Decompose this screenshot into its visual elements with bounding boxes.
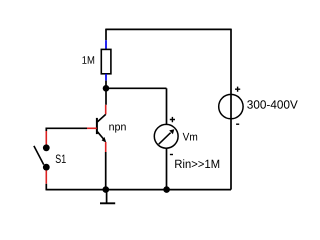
resistor R1 body [101,49,111,73]
wire bottom rail [46,189,231,191]
wire junction to collector (black part) [105,88,107,105]
resistor R1 value label 1M [82,56,94,64]
wire right rail [230,29,232,190]
transistor Q1 base pin (red) [87,127,97,129]
switch S1 contact top [43,144,50,151]
voltmeter U1 minus sign [170,154,173,156]
voltmeter U1 label Vm [183,133,197,141]
voltage source V1 value label 300-400V [247,100,298,109]
switch S1 contact bottom [43,164,50,171]
wire voltmeter bottom to rail [166,148,168,189]
ground stem [106,190,108,204]
node junction emitter / ground on bottom rail [103,186,110,193]
wire switch to base (black part) [46,127,87,129]
transistor Q1 collector pin (red) [105,105,107,115]
wire top rail [106,28,231,30]
transistor Q1 label npn [109,124,125,132]
transistor Q1 collector diagonal [97,114,105,122]
resistor R1 pin top (blue) [105,40,107,50]
switch S1 pin top (red) [45,131,47,145]
wire resistor bottom to junction [105,81,107,89]
voltmeter U1 needle arrowhead [169,129,174,134]
node junction below resistor [103,85,110,92]
voltmeter U1 needle [159,133,171,145]
voltage source V1 body [219,94,243,118]
voltage source V1 minus sign [236,123,239,125]
transistor Q1 emitter pin (red) [105,142,107,152]
switch S1 pin bottom (red) [45,170,47,183]
wire emitter to bottom rail [105,152,107,190]
wire voltmeter branch down to meter [166,88,168,124]
voltmeter U1 note Rin>>1M [175,159,219,168]
wire junction to voltmeter branch (horizontal) [106,87,167,89]
node junction voltmeter on bottom rail [163,186,170,193]
voltage source V1 plus sign [235,87,240,92]
switch S1 label [56,155,66,164]
wire switch bottom to rail (black) [45,184,47,191]
wire resistor top from corner [105,29,107,41]
voltmeter U1 body [154,124,178,148]
transistor Q1 emitter diagonal [97,132,104,140]
switch S1 blade [34,146,44,165]
voltmeter U1 plus sign [170,117,175,122]
ground bar [100,202,115,204]
wire switch branch corner down (black) [45,128,47,132]
transistor Q1 base bar [96,118,98,134]
transistor Q1 emitter arrow [102,137,107,143]
resistor R1 pin bottom (blue) [105,74,107,81]
